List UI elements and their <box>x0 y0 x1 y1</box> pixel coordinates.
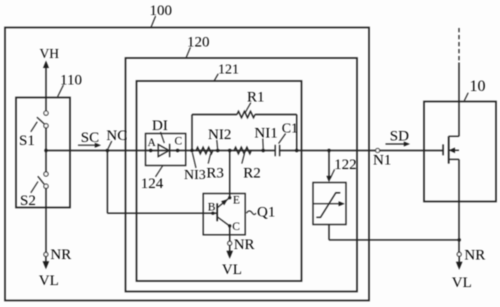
svg-text:110: 110 <box>60 73 82 89</box>
svg-text:C: C <box>175 136 183 148</box>
svg-text:Q1: Q1 <box>257 205 275 221</box>
svg-text:120: 120 <box>187 35 210 51</box>
svg-text:S1: S1 <box>19 133 35 149</box>
svg-text:R3: R3 <box>206 166 224 182</box>
svg-text:C: C <box>232 221 240 233</box>
svg-text:C1: C1 <box>282 121 298 136</box>
svg-text:N1: N1 <box>373 152 391 168</box>
svg-text:121: 121 <box>218 62 239 77</box>
svg-text:VL: VL <box>452 275 472 291</box>
svg-text:NR: NR <box>234 237 255 253</box>
svg-text:VL: VL <box>222 262 242 278</box>
svg-text:E: E <box>233 194 240 206</box>
svg-text:NC: NC <box>106 128 127 144</box>
svg-text:A: A <box>148 137 157 149</box>
svg-text:VL: VL <box>39 273 59 289</box>
svg-text:DI: DI <box>152 118 168 134</box>
svg-text:NR: NR <box>464 248 485 264</box>
svg-text:S2: S2 <box>20 193 36 209</box>
svg-text:NI2: NI2 <box>208 127 231 143</box>
svg-text:124: 124 <box>141 176 164 192</box>
svg-text:VH: VH <box>40 46 60 61</box>
svg-text:SD: SD <box>390 129 409 145</box>
svg-text:NI1: NI1 <box>254 126 277 142</box>
svg-text:SC: SC <box>81 130 99 146</box>
svg-text:R1: R1 <box>247 90 265 106</box>
svg-text:10: 10 <box>470 78 486 95</box>
svg-text:B: B <box>208 202 216 214</box>
svg-text:100: 100 <box>150 3 173 19</box>
svg-text:NI3: NI3 <box>184 168 206 183</box>
svg-text:122: 122 <box>334 157 357 173</box>
svg-text:R2: R2 <box>243 166 261 182</box>
svg-text:NR: NR <box>50 247 71 263</box>
